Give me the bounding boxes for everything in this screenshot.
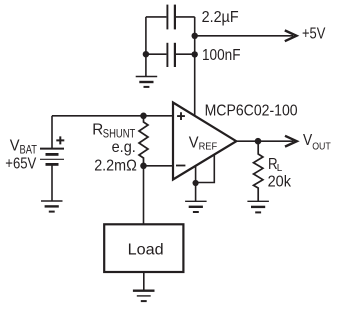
ground: under R_L <box>247 201 269 212</box>
capacitor C1 2.2uF plates <box>166 5 168 30</box>
node: R_SHUNT top junction <box>140 113 147 120</box>
wire: right rail down to op-amp V+ pin <box>194 17 196 116</box>
wire: 100nF left lead <box>146 53 167 55</box>
wire: +5V supply line <box>195 35 293 37</box>
wire: battery negative to ground <box>51 164 53 201</box>
load box <box>104 224 183 272</box>
node: 100nF right junction <box>192 51 198 57</box>
svg-text:2.2mΩ: 2.2mΩ <box>94 157 137 174</box>
svg-text:V: V <box>10 137 20 154</box>
resistor R_SHUNT zigzag <box>139 116 148 166</box>
svg-text:MCP6C02-100: MCP6C02-100 <box>205 103 298 120</box>
svg-text:20k: 20k <box>268 174 292 191</box>
wire: load to ground <box>143 272 145 291</box>
svg-text:L: L <box>277 163 283 174</box>
node: output junction <box>255 138 262 145</box>
capacitor C2 100nF plates <box>166 43 168 67</box>
svg-text:V: V <box>189 135 199 152</box>
op-amp plus input symbol <box>177 112 185 120</box>
svg-text:100nF: 100nF <box>202 47 241 64</box>
svg-text:Load: Load <box>128 241 164 258</box>
wire: - input wire <box>144 165 174 167</box>
resistor R_L zigzag <box>254 141 263 201</box>
arrow: +5V arrowhead <box>285 30 297 41</box>
svg-text:OUT: OUT <box>312 141 331 152</box>
svg-text:+5V: +5V <box>302 26 326 43</box>
arrow: VOUT arrowhead <box>285 136 297 147</box>
wire: Vss pin to ground <box>195 166 197 202</box>
ground: under battery <box>41 201 63 212</box>
svg-text:R: R <box>92 121 103 138</box>
svg-text:REF: REF <box>199 141 218 153</box>
op-amp U1 triangle <box>173 103 236 180</box>
node: 100nF left junction <box>143 51 149 57</box>
battery B1 plates <box>40 149 64 165</box>
ground: under left cap rail <box>136 77 158 87</box>
wire: left rail down to ground <box>145 17 147 77</box>
svg-text:V: V <box>303 132 312 149</box>
svg-text:2.2µF: 2.2µF <box>202 9 239 26</box>
wire: 100nF right lead <box>176 53 195 55</box>
node: +5V tap junction <box>192 33 198 39</box>
wire: top cap right lead <box>176 16 195 18</box>
wire: top cap left lead <box>146 16 167 18</box>
battery V_BAT top wire <box>51 116 53 148</box>
wire: Vref pin <box>196 155 215 183</box>
battery plus sign <box>56 136 64 144</box>
svg-text:+65V: +65V <box>5 156 36 173</box>
op-amp minus input symbol <box>176 165 185 167</box>
ground: under load <box>133 291 155 301</box>
node: R_SHUNT bottom junction <box>140 163 147 170</box>
wire: battery to op-amp + input <box>52 115 173 117</box>
svg-text:e.g.: e.g. <box>112 139 136 156</box>
wire: shunt node down to load <box>143 166 145 225</box>
svg-text:BAT: BAT <box>20 143 38 157</box>
node: Vss/Vref junction <box>193 180 199 186</box>
wire: output line <box>236 140 293 142</box>
ground: under op-amp <box>185 201 207 212</box>
